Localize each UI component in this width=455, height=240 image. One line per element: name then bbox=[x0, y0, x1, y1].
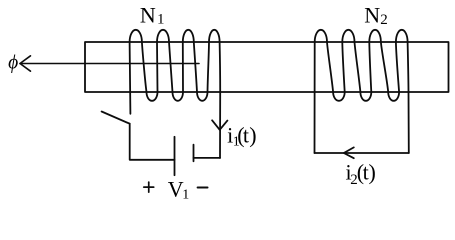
wire N2 bottom bbox=[315, 152, 409, 154]
magnetic core bbox=[85, 42, 449, 92]
svg-text:N: N bbox=[140, 3, 156, 28]
wire switch to battery bbox=[130, 124, 175, 160]
flux line phi bbox=[20, 63, 199, 65]
svg-text:): ) bbox=[249, 123, 256, 148]
battery V1 positive plate bbox=[174, 137, 176, 175]
winding N2 bbox=[315, 30, 409, 153]
svg-text:2: 2 bbox=[380, 12, 388, 28]
svg-text:1: 1 bbox=[182, 188, 189, 203]
svg-text:t: t bbox=[243, 123, 249, 148]
svg-text:1: 1 bbox=[157, 12, 165, 28]
svg-text:): ) bbox=[369, 160, 376, 185]
switch blade bbox=[102, 112, 130, 124]
battery V1 negative plate bbox=[193, 145, 195, 162]
winding N1 bbox=[130, 30, 221, 158]
arrowhead i2 bbox=[344, 147, 354, 158]
flux arrowhead bbox=[20, 56, 31, 71]
arrowhead i1 bbox=[212, 120, 227, 130]
wire battery to i1 lead bbox=[194, 157, 221, 159]
svg-text:ϕ: ϕ bbox=[8, 53, 18, 74]
label minus (battery -) bbox=[198, 187, 208, 189]
label plus (battery +) bbox=[144, 186, 154, 188]
svg-text:N: N bbox=[364, 3, 380, 28]
